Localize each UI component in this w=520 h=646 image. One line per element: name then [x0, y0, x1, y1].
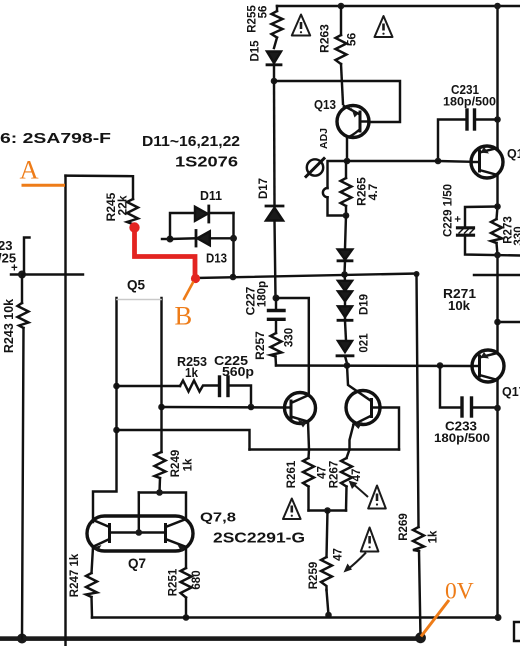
resistor R257 [271, 333, 282, 366]
wire R265 to diode chain [345, 216, 346, 249]
wire Q7 collector bracket [139, 493, 186, 518]
node rail right end [495, 614, 502, 621]
wire 0V thick rail [0, 636, 421, 641]
svg-text:1k: 1k [428, 530, 440, 543]
svg-text:R251: R251 [168, 568, 180, 596]
svg-text:D19: D19 [359, 294, 371, 315]
node ADJ junction [344, 158, 351, 165]
svg-text:D11: D11 [200, 189, 222, 203]
svg-text:ADJ: ADJ [318, 128, 330, 149]
svg-text:Q13: Q13 [314, 98, 336, 112]
svg-text:330: 330 [284, 328, 296, 347]
transistor Q13 [337, 106, 369, 162]
diode D15 [267, 52, 281, 82]
svg-text:R259: R259 [308, 562, 320, 590]
node D15 bottom junction [271, 78, 278, 85]
node D11 D13 left [167, 236, 174, 243]
svg-text:330: 330 [513, 226, 520, 245]
resistor R267 [341, 450, 352, 511]
svg-text:R257: R257 [253, 331, 267, 360]
resistor R253 [180, 381, 218, 392]
wire far-left vertical with R243 [21, 275, 23, 304]
highlighted wire node R245 bottom (red) [129, 222, 139, 232]
wire thin ground return rail [92, 616, 499, 618]
bottom-right connector F bracket [514, 622, 520, 641]
warning triangle T3 [283, 499, 301, 520]
wire left long vertical (Q5 left) [93, 298, 117, 522]
svg-text:680: 680 [191, 570, 203, 589]
svg-text:Q17: Q17 [502, 385, 520, 399]
screwdriver adjust symbol [306, 159, 324, 177]
node 0V left big [17, 634, 27, 644]
node R265 bottom [343, 212, 350, 219]
svg-text:Q5: Q5 [127, 278, 146, 293]
wire Q9 base [158, 404, 284, 411]
wire R253 branch [113, 383, 180, 390]
highlighted wire path (red) [135, 228, 196, 279]
dual transistor Q7,8 oval [87, 516, 193, 552]
svg-text:180p/500: 180p/500 [443, 97, 496, 109]
svg-text:D17: D17 [258, 178, 270, 199]
wire D15 node down to D17 [273, 81, 276, 205]
transistor Q11 [346, 391, 381, 430]
svg-text:560p: 560p [222, 365, 254, 379]
capacitor C229 [458, 203, 520, 258]
resistor R263 [336, 3, 347, 104]
trimmer ADJ bracket [323, 161, 347, 216]
svg-text:4.7: 4.7 [366, 183, 380, 200]
wire Q11 base loop right [381, 408, 400, 450]
svg-text:47: 47 [333, 548, 345, 561]
node R251 bottom on rail [183, 614, 190, 621]
svg-text:180p/500: 180p/500 [434, 433, 490, 445]
svg-text:+: + [11, 263, 18, 275]
node C225 to Q9 base wire [248, 404, 255, 411]
svg-text:A: A [20, 155, 39, 185]
transistor Q9 [285, 393, 316, 428]
node C227 top junction [273, 295, 280, 302]
svg-text:Q7,8: Q7,8 [200, 510, 236, 525]
svg-text:R263: R263 [318, 24, 332, 53]
Q5 faint box top [117, 299, 161, 301]
diode D17 [266, 206, 283, 298]
capacitor C225 [220, 377, 252, 407]
svg-text:22k: 22k [116, 195, 130, 215]
annotation 0V pointer (orange) [421, 600, 449, 637]
wire emitter resistor top rail [250, 448, 400, 450]
warning triangle T5 with arrow [344, 528, 379, 573]
node 0V right big [415, 632, 426, 643]
resistor R273 [491, 207, 502, 256]
svg-text:Q15: Q15 [507, 147, 520, 161]
wire bus corner down to R269 [417, 274, 419, 527]
wire left C223 branch [11, 238, 83, 279]
node diode chain on bus [341, 271, 348, 278]
resistor R249 [155, 452, 166, 493]
svg-text:021: 021 [359, 333, 371, 353]
diode chain top diode [338, 250, 352, 274]
annotation A underline (orange) [22, 184, 66, 187]
wire D21 to Q11 [347, 366, 371, 401]
svg-text:Q7: Q7 [128, 556, 146, 571]
wire base line R257 to Q17 [276, 364, 472, 367]
node D21 bottom on base wire [344, 362, 351, 369]
node bus right corner [414, 271, 420, 277]
svg-text:R269: R269 [398, 513, 410, 541]
svg-text:C231: C231 [451, 83, 479, 97]
node R259 bottom [325, 612, 332, 619]
svg-text:D15: D15 [250, 40, 262, 62]
svg-text:C227: C227 [244, 286, 258, 315]
svg-text:R243 10k: R243 10k [2, 299, 16, 353]
wire bus right edge segment [474, 274, 520, 276]
wire A-node top to R245 [66, 176, 134, 199]
svg-text:1S2076: 1S2076 [175, 154, 238, 171]
svg-text:2SC2291-G: 2SC2291-G [213, 530, 305, 547]
resistor R261 [303, 450, 314, 511]
svg-text:47: 47 [351, 469, 363, 482]
diode D13 [170, 231, 234, 247]
wire top supply rail [277, 5, 520, 8]
capacitor C227 [269, 298, 285, 333]
diode D21 [337, 341, 353, 364]
warning triangle T2 [375, 16, 393, 37]
node D13 right [230, 235, 237, 242]
wire D15 node to Q13 emitter loop [274, 81, 400, 122]
resistor R251 [181, 548, 192, 618]
wire main bias bus [196, 274, 417, 279]
node bus-D11D13 junction [230, 274, 237, 281]
svg-text:R249: R249 [170, 450, 182, 478]
wire D11 left stub [162, 238, 170, 240]
resistor R245 [127, 199, 138, 224]
svg-text:56: 56 [258, 6, 270, 19]
wire emitter resistors bottom U [309, 509, 347, 511]
node C231 to base wire [435, 158, 442, 165]
svg-text:10k: 10k [448, 298, 471, 313]
svg-text:D11~16,21,22: D11~16,21,22 [142, 134, 240, 150]
svg-text:1k: 1k [185, 366, 198, 380]
svg-text:D13: D13 [206, 252, 227, 266]
resistor R259 [321, 511, 332, 616]
svg-text:R267: R267 [329, 461, 341, 489]
transistor Q15 [471, 146, 503, 178]
resistor R269 [413, 527, 424, 637]
transistor Q17 [472, 350, 504, 382]
wire feedback lower [113, 427, 249, 450]
svg-text:6: 2SA798-F: 6: 2SA798-F [0, 131, 111, 147]
svg-text:C229 1/50: C229 1/50 [443, 184, 455, 237]
svg-text:R261: R261 [286, 460, 298, 488]
diode D19 (triple) [338, 275, 352, 341]
svg-text:0V: 0V [445, 579, 474, 605]
wire Q11 emitter down to R267 [350, 425, 354, 450]
wire Q13/R265 node to Q15 base [347, 160, 471, 163]
svg-text:56: 56 [345, 33, 359, 47]
warning triangle T1 [292, 15, 310, 36]
node B (red) [191, 274, 200, 283]
capacitor C231 [438, 110, 501, 161]
capacitor C233 [437, 362, 501, 416]
resistor R265 [341, 161, 352, 216]
svg-text:B: B [175, 301, 193, 331]
resistor R255 [272, 6, 283, 48]
svg-text:R247 1k: R247 1k [69, 553, 81, 597]
wire C227 node to Q9 collector [276, 298, 309, 395]
resistor R243 [18, 303, 29, 639]
wire right vertical (Q5 right) to R249 [160, 298, 162, 452]
wire right column vertical [496, 6, 498, 150]
svg-text:47: 47 [317, 466, 329, 479]
diode pair D11 D13 box [162, 206, 237, 276]
annotation B pointer (orange) [184, 282, 194, 301]
svg-text:180p: 180p [257, 281, 269, 307]
node R261/R267 common [324, 507, 331, 514]
svg-text:C233: C233 [445, 420, 477, 434]
diode D11 [195, 206, 234, 222]
wire Q9 emitter down [308, 422, 309, 450]
wire R271 stub to edge [498, 321, 520, 323]
resistor R247 [86, 547, 97, 618]
wire A-node vertical [64, 176, 66, 646]
svg-text:+: + [453, 216, 465, 222]
warning triangle T4 with arrow [349, 481, 386, 509]
svg-text:1k: 1k [183, 458, 195, 471]
